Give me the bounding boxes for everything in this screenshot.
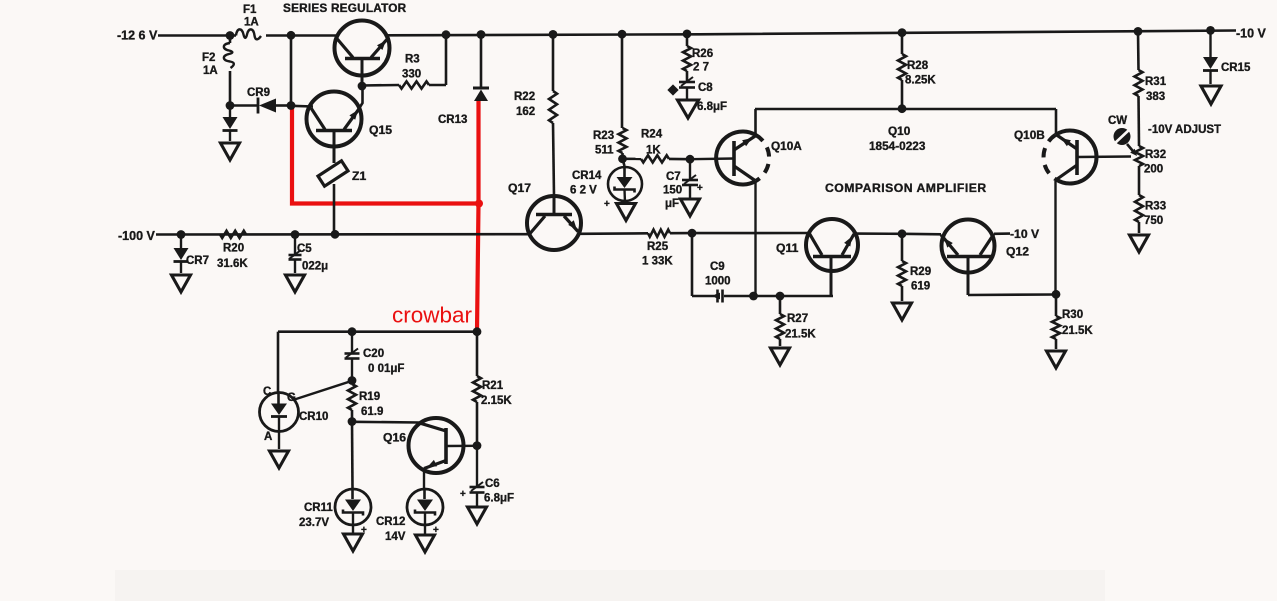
- node label Q10 part number: [869, 124, 926, 153]
- resistor R27: [776, 296, 816, 346]
- svg-text:crowbar: crowbar: [392, 303, 473, 328]
- diode CR9: [230, 87, 291, 114]
- wire junction down to CR9 node: [290, 35, 293, 105]
- potentiometer CW wiper: [1108, 115, 1137, 156]
- wire F1 to series regulator: [266, 34, 338, 37]
- resistor R22: [514, 35, 557, 197]
- svg-text:330: 330: [402, 69, 421, 81]
- capacitor C8: [667, 77, 727, 113]
- fuse F1: [236, 4, 261, 39]
- svg-text:SERIES REGULATOR: SERIES REGULATOR: [283, 1, 407, 15]
- node junction crowbar/R21 (red tap): [473, 327, 482, 336]
- ground below R27: [771, 348, 790, 365]
- transistor Q15: [291, 86, 392, 163]
- svg-text:C7: C7: [666, 171, 681, 183]
- diode CR15: [1203, 30, 1251, 84]
- node junction C20/R19/CR10 gate: [348, 376, 357, 385]
- svg-text:+: +: [460, 489, 466, 500]
- wire -100V rail right of Q17: [580, 232, 648, 235]
- ground below C5: [286, 275, 305, 292]
- svg-text:383: 383: [1146, 91, 1165, 103]
- zener CR12 (circled): [376, 489, 443, 543]
- resistor R33: [1135, 166, 1166, 233]
- node rail junction R22: [549, 30, 558, 39]
- node series regulator base junction: [358, 82, 367, 91]
- node rail junction R26: [683, 30, 692, 39]
- svg-text:Q17: Q17: [508, 181, 531, 195]
- svg-text:Q10B: Q10B: [1014, 128, 1045, 142]
- node rail junction R31: [1134, 27, 1143, 36]
- node junction C9/Q10A emitter: [749, 292, 758, 301]
- svg-text:8.25K: 8.25K: [905, 75, 936, 87]
- svg-text:-10 V: -10 V: [1010, 227, 1040, 241]
- transistor Q16: [383, 418, 477, 489]
- node junction crowbar/C20: [348, 327, 357, 336]
- node rail junction above CR9: [287, 31, 296, 40]
- svg-text:022μ: 022μ: [302, 261, 328, 273]
- svg-text:C9: C9: [710, 261, 725, 273]
- node junction R28/top wire: [898, 104, 907, 113]
- svg-text:Q15: Q15: [369, 123, 392, 137]
- node rail junction R3: [442, 30, 451, 39]
- ground below fuse-node diode: [221, 143, 240, 160]
- capacitor C9 (loop): [692, 233, 833, 302]
- ground below CR7: [172, 275, 191, 292]
- svg-text:C: C: [263, 386, 271, 398]
- svg-text:619: 619: [911, 281, 930, 293]
- diode below fuse node: [223, 106, 238, 142]
- capacitor C5: [289, 235, 329, 274]
- svg-text:R24: R24: [641, 129, 663, 141]
- svg-text:C8: C8: [698, 82, 713, 94]
- ground below R33: [1130, 235, 1149, 252]
- node junction Q12 base/Q10B/R30: [1052, 290, 1061, 299]
- svg-text:R33: R33: [1145, 201, 1166, 213]
- svg-text:Q10: Q10: [888, 124, 911, 138]
- node junction CR9/Q15 (crowbar tap): [287, 101, 296, 110]
- ground below R29: [893, 303, 912, 320]
- svg-text:R19: R19: [359, 391, 380, 403]
- svg-text:C20: C20: [363, 348, 384, 360]
- resistor R25: [642, 230, 692, 268]
- svg-text:750: 750: [1144, 215, 1163, 227]
- svg-text:150: 150: [663, 185, 682, 197]
- ground below CR11: [344, 534, 363, 551]
- svg-text:6 2 V: 6 2 V: [570, 185, 597, 197]
- resistor R24: [623, 129, 691, 163]
- ground below CR15: [1201, 86, 1221, 104]
- transistor series regulator Q (circle): [335, 21, 390, 87]
- thyristor CR10 (circled SCR): [260, 381, 353, 449]
- resistor R19: [348, 381, 383, 422]
- capacitor C20: [345, 332, 405, 381]
- transistor Q17: [508, 181, 581, 250]
- svg-text:CR14: CR14: [572, 170, 602, 182]
- svg-text:R22: R22: [514, 91, 535, 103]
- node junction C9/R27: [776, 292, 785, 301]
- node rail junction R28: [898, 28, 907, 37]
- transistor Q12: [902, 220, 1040, 296]
- wire comparison amplifier top rail: [755, 108, 1056, 111]
- ground below R30: [1047, 351, 1066, 368]
- zener CR11 (circled): [299, 489, 371, 536]
- capacitor C6: [460, 446, 514, 506]
- svg-text:61.9: 61.9: [361, 406, 383, 418]
- transistor Q10B: [1014, 128, 1131, 294]
- svg-text:200: 200: [1144, 164, 1163, 176]
- node junction R19/Q16: [348, 417, 357, 426]
- resistor R29: [898, 234, 931, 301]
- svg-text:2.15K: 2.15K: [481, 395, 512, 407]
- svg-text:-12 6 V: -12 6 V: [117, 29, 158, 43]
- svg-text:R30: R30: [1062, 309, 1083, 321]
- svg-text:511: 511: [595, 145, 614, 157]
- resistor R3: [362, 35, 446, 89]
- wire Q10A collector to top rail: [754, 109, 757, 135]
- svg-text:1854-0223: 1854-0223: [869, 139, 926, 153]
- wire R19 to CR11: [351, 422, 354, 490]
- svg-text:C5: C5: [297, 243, 312, 255]
- svg-text:G: G: [287, 392, 296, 404]
- node rail junction CR15: [1206, 26, 1215, 35]
- node junction R24/C7/Q10A base: [686, 155, 695, 164]
- resistor R20: [217, 231, 248, 270]
- node rail junction CR13: [477, 30, 486, 39]
- svg-text:C6: C6: [485, 478, 500, 490]
- svg-text:2 7: 2 7: [693, 62, 709, 74]
- svg-text:CR7: CR7: [186, 255, 209, 267]
- resistor R32 (pot element): [1135, 146, 1166, 176]
- svg-text:6.8μF: 6.8μF: [697, 101, 727, 113]
- svg-text:31.6K: 31.6K: [217, 258, 248, 270]
- svg-text:CR12: CR12: [376, 516, 405, 528]
- svg-text:23.7V: 23.7V: [299, 517, 329, 529]
- svg-text:R28: R28: [907, 60, 929, 72]
- svg-text:162: 162: [516, 106, 535, 118]
- ground below C8: [678, 100, 699, 118]
- ground below CR14: [617, 204, 636, 221]
- node junction R23/R24/CR14: [618, 154, 627, 163]
- svg-text:+: +: [697, 183, 703, 194]
- svg-text:-10V ADJUST: -10V ADJUST: [1148, 124, 1221, 136]
- svg-text:Q11: Q11: [776, 241, 799, 255]
- svg-text:CR9: CR9: [247, 87, 270, 99]
- svg-text:-10 V: -10 V: [1236, 27, 1267, 41]
- transistor Q11: [692, 219, 902, 296]
- resistor R31: [1135, 31, 1167, 146]
- node junction Z1 on -100V rail: [331, 230, 340, 239]
- resistor R26: [683, 34, 713, 81]
- svg-text:1 33K: 1 33K: [642, 256, 673, 268]
- svg-text:F2: F2: [202, 52, 215, 64]
- zener Z1 (box symbol): [318, 161, 366, 235]
- resistor R28: [898, 33, 936, 109]
- svg-text:-100 V: -100 V: [118, 229, 155, 243]
- node junction R29: [898, 229, 907, 238]
- resistor R23: [593, 34, 627, 159]
- svg-text:Q12: Q12: [1006, 245, 1029, 259]
- wire Q12 base to R30 node: [968, 293, 1056, 296]
- svg-text:1000: 1000: [705, 276, 731, 288]
- svg-text:F1: F1: [243, 4, 257, 16]
- svg-text:CR15: CR15: [1221, 62, 1251, 74]
- ground below C6: [468, 507, 487, 524]
- svg-text:R31: R31: [1145, 76, 1167, 88]
- svg-text:R21: R21: [482, 380, 504, 392]
- svg-text:μF: μF: [665, 198, 679, 210]
- node -12.6V terminal label: [117, 29, 158, 43]
- svg-text:A: A: [264, 431, 272, 443]
- svg-text:14V: 14V: [385, 531, 406, 543]
- svg-text:R20: R20: [223, 243, 244, 255]
- ground below CR12: [416, 535, 435, 552]
- svg-text:R29: R29: [910, 266, 931, 278]
- svg-text:Q16: Q16: [383, 431, 406, 445]
- svg-text:CR11: CR11: [304, 502, 333, 514]
- svg-text:21.5K: 21.5K: [1062, 325, 1093, 337]
- resistor R30: [1052, 294, 1093, 349]
- node junction C5: [291, 230, 300, 239]
- wire R19 node to Q16 collector: [352, 420, 419, 423]
- svg-text:R3: R3: [405, 54, 420, 66]
- zener CR14 (circled): [570, 159, 642, 210]
- svg-text:COMPARISON AMPLIFIER: COMPARISON AMPLIFIER: [825, 181, 987, 195]
- wire crowbar bus: [278, 330, 477, 333]
- node junction CR9/F2: [226, 101, 235, 110]
- ground below CR10: [270, 451, 289, 468]
- node junction F1/F2: [226, 31, 235, 40]
- node crowbar label (red text): [392, 303, 473, 328]
- node junction R25/C9: [688, 229, 697, 238]
- svg-text:R23: R23: [593, 130, 614, 142]
- diode CR13: [438, 35, 489, 127]
- wire rail right of series regulator: [388, 31, 1236, 36]
- svg-text:0 01μF: 0 01μF: [368, 363, 404, 375]
- svg-text:Q10A: Q10A: [771, 139, 802, 153]
- svg-text:1A: 1A: [203, 65, 218, 77]
- svg-text:R26: R26: [692, 48, 713, 60]
- diode CR7: [174, 235, 210, 274]
- node label comparison amplifier: [825, 181, 987, 195]
- svg-text:1A: 1A: [244, 17, 259, 29]
- node -100V terminal label: [118, 229, 155, 243]
- ground below C7: [681, 199, 700, 216]
- fuse F2: [202, 36, 234, 106]
- svg-text:Z1: Z1: [352, 169, 366, 183]
- svg-text:R25: R25: [647, 241, 669, 253]
- transistor series regulator (label): [283, 1, 407, 15]
- node junction CR7: [177, 230, 186, 239]
- resistor R21: [473, 332, 512, 446]
- node junction Q16 base/R21/C6: [473, 441, 482, 450]
- svg-text:+: +: [604, 199, 610, 210]
- svg-text:1K: 1K: [646, 145, 661, 157]
- wire crowbar trace (red highlight): [292, 101, 483, 331]
- svg-text:R27: R27: [787, 313, 808, 325]
- wire Q10B collector to top rail: [1055, 109, 1058, 134]
- svg-text:6.8μF: 6.8μF: [484, 493, 514, 505]
- svg-text:R32: R32: [1145, 149, 1166, 161]
- wire crowbar bus to CR10: [277, 332, 280, 394]
- node rail junction R23: [618, 30, 627, 39]
- wire -100V rail: [156, 233, 528, 236]
- svg-text:21.5K: 21.5K: [785, 329, 816, 341]
- svg-text:CW: CW: [1108, 115, 1127, 127]
- capacitor C7: [663, 159, 703, 210]
- node -10V terminal label (top right): [1236, 27, 1267, 41]
- svg-text:CR10: CR10: [299, 411, 328, 423]
- wire top rail left segment: [158, 34, 236, 37]
- transistor Q10A: [690, 131, 802, 296]
- node label -10V ADJUST: [1148, 124, 1221, 136]
- svg-text:CR13: CR13: [438, 114, 467, 126]
